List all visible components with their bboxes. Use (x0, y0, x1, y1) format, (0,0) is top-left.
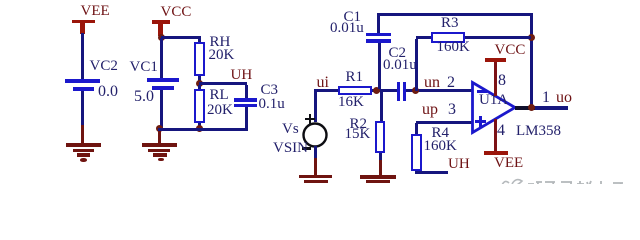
power symbol VEE (left) (72, 20, 95, 23)
ground (center) (142, 143, 177, 147)
resistor R3 160K (431, 32, 465, 43)
junction node UH (196, 80, 203, 87)
wire R3 left (416, 36, 432, 39)
pin 4 wire (494, 119, 497, 151)
pin number 8 (498, 73, 506, 88)
voltage source VC1 value 5.0 (147, 78, 179, 82)
capacitor C3 0.1u (234, 98, 257, 102)
wire R2 to ground (379, 153, 382, 161)
part number LM358 (516, 124, 561, 139)
wire VC2 to ground (81, 91, 84, 126)
wire VCC junction down to VC1 (160, 38, 163, 78)
power symbol VCC (middle) (152, 20, 170, 23)
wire feedback top rail (377, 13, 533, 16)
wire UH horizontal to C3 (199, 82, 247, 85)
op-amp plus input mark (475, 120, 486, 123)
wire RL bottom (198, 123, 201, 128)
wire op-amp output (515, 106, 536, 110)
wire Vs bottom to ground (314, 146, 317, 158)
power symbol VEE (right) (484, 151, 508, 155)
pin number 2 (447, 75, 455, 90)
pin number 3 (448, 102, 456, 117)
resistor R2 15K (375, 121, 386, 153)
junction VCC node (158, 34, 165, 41)
capacitor C2 0.01u (397, 82, 401, 101)
wire R1 to C2 (372, 89, 397, 92)
wire C2 to op-amp pin 2 (406, 89, 473, 92)
wire R2 branch vertical (380, 92, 383, 121)
wire feedback right vertical (530, 13, 533, 108)
wire Vs up to ui node (314, 89, 317, 122)
wire C3 bottom (245, 107, 248, 130)
wire R3 left vertical to un (415, 39, 418, 91)
net label UH (right) (448, 157, 470, 172)
net label un (424, 75, 440, 90)
op-amp designator U1A (479, 93, 508, 108)
wire C1 top to feedback rail (377, 14, 380, 33)
wire down to R4 (415, 123, 418, 134)
wire R4 bottom stub (415, 171, 449, 174)
capacitor C1 0.01u (366, 33, 391, 36)
wire to RL top (198, 85, 201, 90)
junction output node (528, 104, 535, 111)
pin number 1 (542, 90, 550, 105)
resistor R1 16K (338, 86, 372, 95)
junction node un (412, 87, 419, 94)
wire R3 right horizontal (465, 36, 531, 39)
wire op-amp pin 3 horizontal (416, 121, 473, 124)
pin number 4 (497, 123, 505, 138)
ground (under R2) (360, 175, 396, 178)
net label up (422, 102, 438, 117)
junction VC1 bottom (156, 125, 163, 132)
resistor RL 20K (194, 89, 206, 123)
resistor R4 160K (411, 134, 422, 171)
wire C1 branch vertical (378, 43, 381, 89)
wire junction to ground (center) (158, 129, 161, 144)
net label uo (556, 90, 572, 105)
pin 8 wire (494, 62, 497, 96)
ground (under Vs) (299, 175, 332, 179)
resistor RH 20K (194, 42, 205, 76)
wire ui to R1 (314, 89, 339, 92)
wire VEE to VC2 (81, 33, 84, 80)
wire VCC junction to RH top (161, 36, 201, 39)
ground (left) (66, 143, 101, 147)
wire RH bottom (198, 76, 201, 82)
op-amp U1A (470, 79, 520, 137)
junction RL bottom (196, 125, 203, 132)
net label ui (317, 75, 329, 90)
wire VC1 to bottom junction (160, 90, 163, 129)
voltage source VC2 value 0.0 (65, 79, 100, 83)
junction R1/C1/R2 node (373, 87, 380, 94)
op-amp minus input mark (477, 90, 487, 93)
junction R3 right (528, 34, 535, 41)
source Vs VSIN (301, 121, 330, 150)
power symbol VCC (right) (485, 58, 507, 62)
net label UH (231, 68, 253, 83)
wire bottom horizontal VC1 to C3 (158, 128, 248, 131)
